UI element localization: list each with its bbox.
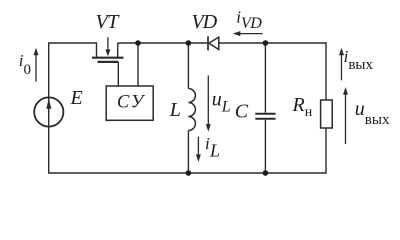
wire capacitor top lead bbox=[264, 43, 266, 113]
wire capacitor bottom lead bbox=[264, 120, 266, 173]
voltage arrow uL bbox=[206, 76, 211, 132]
svg-text:C: C bbox=[235, 101, 249, 123]
diode VD triangle bbox=[209, 37, 219, 49]
transistor Q VT channel bar bbox=[92, 57, 124, 59]
wire top rail right segment bbox=[219, 42, 327, 44]
source E internal arrowhead bbox=[46, 99, 51, 109]
svg-text:VD: VD bbox=[192, 11, 218, 33]
node dot at capacitor bottom junction bbox=[263, 170, 269, 176]
current arrow iвых bbox=[339, 48, 344, 81]
svg-text:СУ: СУ bbox=[117, 92, 146, 112]
transistor VT substrate arrow bbox=[105, 37, 110, 56]
svg-text:E: E bbox=[70, 87, 83, 109]
capacitor C top plate bbox=[255, 113, 275, 115]
wire transistor drain lead bbox=[96, 42, 98, 57]
wire top rail middle segment bbox=[118, 42, 208, 44]
wire from node at x138 down to control box bbox=[137, 43, 139, 87]
transistor VT gate bar bbox=[98, 61, 119, 63]
capacitor C bottom plate bbox=[255, 118, 275, 120]
node dot at capacitor top junction bbox=[263, 40, 269, 46]
wire bottom rail bbox=[48, 172, 327, 174]
resistor Rн body bbox=[321, 100, 333, 128]
svg-text:iVD: iVD bbox=[236, 8, 262, 33]
control unit box СУ bbox=[106, 86, 153, 120]
svg-text:iL: iL bbox=[205, 134, 220, 160]
wire right branch upper bbox=[325, 42, 327, 100]
wire gate lead down to control box bbox=[117, 62, 119, 87]
svg-text:VT: VT bbox=[96, 11, 121, 33]
svg-text:uL: uL bbox=[212, 88, 231, 115]
source E circle bbox=[34, 97, 63, 126]
inductor L coil bbox=[188, 89, 195, 131]
node dot at transistor/control junction bbox=[135, 40, 141, 46]
svg-text:uвых: uвых bbox=[355, 98, 390, 128]
svg-text:L: L bbox=[169, 99, 181, 121]
wire left branch bbox=[48, 43, 50, 173]
voltage arrow uвых bbox=[343, 87, 348, 144]
current arrow i0 bbox=[34, 48, 39, 82]
current arrow iVD bbox=[233, 31, 263, 36]
wire right branch lower bbox=[325, 128, 327, 173]
wire transistor source lead bbox=[117, 43, 119, 57]
svg-text:iвых: iвых bbox=[344, 47, 374, 73]
svg-text:Rн: Rн bbox=[292, 94, 313, 120]
node dot at inductor bottom junction bbox=[186, 170, 192, 176]
wire inductor bottom lead bbox=[187, 131, 189, 174]
current arrow iL bbox=[196, 137, 201, 162]
wire top rail left segment bbox=[48, 42, 97, 44]
svg-text:i0: i0 bbox=[19, 51, 31, 78]
wire inductor top lead bbox=[187, 43, 189, 89]
diode VD cathode bar bbox=[207, 36, 209, 50]
node dot at diode/inductor junction bbox=[186, 40, 192, 46]
